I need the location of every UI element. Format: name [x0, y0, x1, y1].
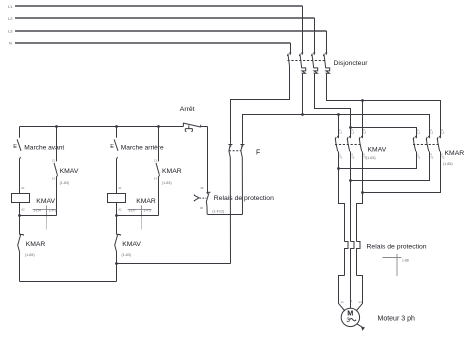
svg-text:Arrêt: Arrêt [180, 106, 195, 113]
contactor KMAR pole 3 [426, 128, 434, 160]
wire N drop to breaker [290, 43, 292, 54]
breaker linkage dashed [288, 60, 327, 62]
pushbutton Marche arriere [110, 127, 118, 194]
svg-text:A1: A1 [21, 186, 25, 190]
svg-text:KMAR: KMAR [136, 198, 156, 205]
wire KMAV pole1 out [338, 151, 340, 168]
svg-text:F: F [256, 150, 260, 157]
coil KMAR [108, 186, 126, 216]
junction node KMAV pole1 tap [337, 113, 340, 116]
svg-text:KMAR: KMAR [445, 150, 465, 157]
wire L1 left to F [243, 115, 303, 144]
wire motor W jog [356, 276, 362, 312]
junction node N tap [115, 262, 118, 265]
node L3 rail [8, 29, 327, 34]
contactor KMAR pole 5 [437, 128, 445, 160]
wire branch B bottom [116, 264, 118, 282]
svg-text:E: E [110, 144, 114, 150]
wire control rail [20, 126, 184, 128]
node L1 rail [8, 4, 303, 9]
svg-text:L3: L3 [8, 29, 13, 34]
breaker Disjoncteur pole L3 [323, 53, 329, 74]
wire KMAR pole2 out [351, 151, 430, 180]
wire L2 H2 [315, 73, 351, 127]
pushbutton Marche avant [13, 127, 21, 194]
thermal relay heater 2 [351, 242, 355, 309]
svg-text:Marche arrière: Marche arrière [121, 145, 164, 152]
pushbutton Arret NC [183, 123, 208, 131]
svg-text:KMAV: KMAV [122, 241, 141, 248]
svg-text:3: 3 [346, 317, 350, 324]
wire L1 drop to breaker [302, 6, 304, 54]
motor label 3~ [346, 317, 356, 324]
junction node branch B [115, 125, 118, 128]
svg-text:A2: A2 [118, 207, 122, 211]
wire phase U to relay [339, 169, 345, 242]
interlock contact KMAV NC [115, 216, 121, 264]
contactor KMAV pole 3 [347, 128, 355, 160]
junction node L1-H1 [301, 113, 304, 116]
svg-text:Relais de protection: Relais de protection [214, 195, 274, 202]
svg-text:N: N [9, 41, 12, 46]
wire motor U jog [339, 276, 345, 312]
svg-text:KMAV: KMAV [60, 168, 79, 175]
wire L3 to contactors [327, 73, 441, 137]
aux contact KMAR holding [154, 127, 159, 216]
svg-text:Marche avant: Marche avant [24, 145, 64, 152]
svg-text:KMAV: KMAV [368, 146, 387, 153]
contactor F linkage dashed [229, 150, 241, 152]
node N rail [9, 41, 291, 46]
KMAV coil xref [33, 205, 57, 229]
svg-text:1-D4: 1-D4 [33, 209, 41, 213]
wire aux B return [117, 215, 159, 217]
contactor KMAR pole 1 [413, 128, 421, 160]
contactor KMAV linkage dashed [335, 144, 361, 146]
thermal relay xref cross [383, 254, 409, 276]
svg-text:KMAR: KMAR [162, 168, 182, 175]
svg-text:KMAR: KMAR [26, 241, 46, 248]
junction node KMAV pole2 tap [349, 126, 352, 129]
contactor KMAV pole 5 [359, 128, 367, 160]
svg-text:1-P1: 1-P1 [49, 209, 56, 213]
svg-text:Relais de protection: Relais de protection [367, 244, 427, 251]
junction node coil A bottom [18, 214, 21, 217]
node L2 rail [8, 16, 315, 21]
wire phase V to relay [350, 181, 352, 242]
wire N return tap [117, 263, 231, 265]
wire L2 to KMAR pole1 [351, 128, 417, 138]
svg-text:1-88: 1-88 [402, 258, 409, 262]
breaker Disjoncteur pole L2 [311, 53, 317, 74]
aux contact KMAV holding [52, 127, 57, 216]
svg-text:L2: L2 [8, 16, 13, 21]
wire L1 H1 [303, 73, 430, 137]
wire bottom rail [20, 281, 117, 283]
wire L2 drop to breaker [314, 18, 316, 54]
wire aux A return [20, 215, 57, 217]
thermal relay heater 1 [345, 242, 349, 276]
svg-text:(1-F12): (1-F12) [212, 209, 224, 213]
contactor KMAR linkage dashed [413, 144, 439, 146]
wire KMAV pole3 out [362, 151, 364, 192]
svg-text:1-D7: 1-D7 [128, 209, 136, 213]
svg-text:Disjoncteur: Disjoncteur [334, 60, 369, 67]
wire L3 drop to breaker [326, 31, 328, 54]
wire N to control [231, 66, 290, 144]
junction node out V [349, 179, 352, 182]
breaker Disjoncteur pole L1 [299, 53, 305, 74]
junction node out U [337, 167, 340, 170]
svg-text:KMAV: KMAV [36, 198, 55, 205]
svg-text:w1: w1 [359, 300, 363, 304]
wire KMAR pole1 out [339, 151, 417, 168]
svg-text:1-P3: 1-P3 [143, 209, 150, 213]
junction node coil B bottom [115, 214, 118, 217]
wire F to relay contact [208, 214, 243, 216]
interlock contact KMAR NC [18, 216, 24, 282]
ground [357, 324, 365, 331]
svg-text:(1-63): (1-63) [366, 156, 376, 160]
svg-text:A2: A2 [21, 207, 25, 211]
wire phase W to relay [357, 193, 363, 242]
svg-text:(1-63): (1-63) [122, 253, 132, 257]
svg-text:(1-65): (1-65) [25, 253, 35, 257]
junction node out W [361, 191, 364, 194]
svg-text:(1-83): (1-83) [60, 181, 70, 185]
wire L3 to KMAV pole3 [362, 101, 364, 138]
coil KMAV [12, 186, 30, 216]
svg-text:(1-65): (1-65) [443, 162, 453, 166]
svg-text:Moteur 3 ph: Moteur 3 ph [378, 315, 415, 322]
contactor F pole 2 [240, 145, 244, 215]
motor M1 circle [341, 308, 359, 326]
contactor F pole 1 [228, 145, 232, 264]
contactor KMAV pole 1 [335, 128, 343, 160]
wire KMAV pole2 out [350, 151, 352, 180]
thermal relay heater 3 [357, 242, 361, 276]
svg-text:L1: L1 [8, 4, 13, 9]
wire L1 to KMAV pole1 [338, 115, 340, 138]
wire KMAR pole3 out [363, 151, 441, 192]
KMAR coil xref [128, 205, 152, 229]
junction node aux A [55, 125, 58, 128]
wire L2 to KMAV pole2 [350, 128, 352, 138]
thermal relay NC contact [200, 127, 211, 215]
svg-text:A1: A1 [118, 186, 122, 190]
junction node KMAV pole3 tap [361, 99, 364, 102]
thermal relay trip symbol [194, 195, 206, 202]
svg-text:(1-83): (1-83) [162, 181, 172, 185]
breaker Disjoncteur pole N [287, 53, 291, 68]
junction node aux B [157, 125, 160, 128]
svg-text:E: E [13, 144, 17, 150]
